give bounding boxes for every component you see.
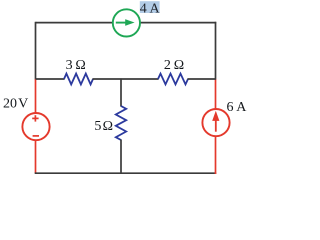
- resistor R 3ohm zigzag: [64, 74, 93, 85]
- wire: middle horizontal right of 2-ohm: [188, 78, 217, 80]
- wire: right vertical upper black: [215, 22, 217, 80]
- minus sign of 20V source: [33, 135, 39, 137]
- arrow of 6A source: head: [212, 111, 219, 121]
- arrow of 4A source: tail: [116, 22, 127, 24]
- arrow of 6A source: tail: [215, 121, 217, 132]
- current source I2 6A (red circle): [202, 109, 229, 136]
- resistor R 5ohm zigzag (vertical): [116, 106, 126, 140]
- wire: middle horizontal between 3-ohm and 2-ohm: [93, 78, 159, 80]
- svg-text:5 Ω: 5 Ω: [94, 119, 113, 134]
- wire: left vertical upper black: [35, 22, 37, 80]
- wire: left vertical red above 20V source: [35, 79, 37, 114]
- voltage source V1 20V (red circle): [22, 113, 49, 140]
- svg-text:3 Ω: 3 Ω: [66, 58, 86, 73]
- label 4A highlight box: [140, 1, 160, 13]
- svg-text:6 A: 6 A: [227, 100, 248, 115]
- wire: center vertical above 5-ohm: [120, 78, 122, 106]
- svg-text:2 Ω: 2 Ω: [164, 58, 184, 73]
- wire: right vertical red above 6A source: [215, 79, 217, 110]
- wire: middle horizontal left of 3-ohm: [36, 78, 65, 80]
- wire: left vertical red below 20V source: [35, 140, 37, 173]
- wire: top-right horizontal segment: [139, 22, 216, 24]
- svg-text:20 V: 20 V: [3, 96, 28, 111]
- wire: bottom horizontal: [35, 172, 217, 174]
- resistor R 2ohm zigzag: [158, 74, 188, 85]
- wire: top-left horizontal segment: [36, 22, 113, 24]
- current source I1 4A (green circle): [113, 9, 140, 36]
- wire: center vertical below 5-ohm: [120, 140, 122, 174]
- svg-text:4 A: 4 A: [140, 2, 161, 17]
- arrow of 4A source: head: [125, 19, 134, 26]
- plus sign of 20V source: [32, 117, 38, 119]
- wire: right vertical red below 6A source: [215, 136, 217, 174]
